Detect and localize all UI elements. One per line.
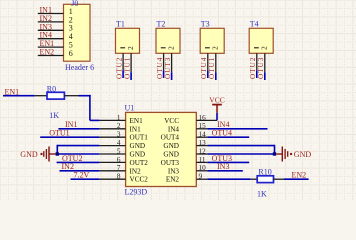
svg-text:3: 3 <box>117 131 121 139</box>
svg-text:OTU4: OTU4 <box>212 129 232 138</box>
svg-text:IN3: IN3 <box>168 167 180 175</box>
svg-text:2: 2 <box>127 46 135 50</box>
svg-text:1: 1 <box>117 114 121 122</box>
svg-text:GND: GND <box>130 142 146 150</box>
svg-text:7.2V: 7.2V <box>74 171 90 180</box>
svg-text:GND: GND <box>163 151 179 159</box>
svg-text:6: 6 <box>69 49 73 58</box>
svg-text:IN3: IN3 <box>217 162 229 171</box>
svg-text:IN1: IN1 <box>130 125 142 133</box>
svg-text:8: 8 <box>117 173 121 181</box>
svg-text:L293D: L293D <box>125 188 148 197</box>
svg-text:IN2: IN2 <box>62 162 74 171</box>
svg-text:VCC: VCC <box>164 117 179 125</box>
svg-text:VCC2: VCC2 <box>130 176 149 184</box>
svg-text:T3: T3 <box>201 20 210 29</box>
svg-text:EN2: EN2 <box>166 176 180 184</box>
svg-text:T1: T1 <box>116 20 125 29</box>
svg-text:GND: GND <box>130 151 146 159</box>
svg-text:1K: 1K <box>257 190 267 199</box>
svg-text:2: 2 <box>212 46 220 50</box>
svg-text:GND: GND <box>294 150 312 159</box>
svg-text:T2: T2 <box>157 20 166 29</box>
svg-text:OTU4: OTU4 <box>200 57 208 79</box>
svg-text:OTU2: OTU2 <box>116 57 124 79</box>
svg-text:R0: R0 <box>47 85 56 94</box>
svg-text:2: 2 <box>117 122 121 130</box>
svg-text:EN1: EN1 <box>130 117 144 125</box>
svg-text:1K: 1K <box>49 111 59 120</box>
svg-text:OTU1: OTU1 <box>208 57 216 79</box>
svg-text:2: 2 <box>167 46 175 50</box>
svg-text:2: 2 <box>261 46 269 50</box>
svg-text:GND: GND <box>20 150 38 159</box>
svg-text:OUT3: OUT3 <box>161 159 180 167</box>
svg-text:IN2: IN2 <box>130 167 142 175</box>
svg-text:OTU3: OTU3 <box>257 57 265 79</box>
svg-text:OTU1: OTU1 <box>49 129 69 138</box>
svg-text:EN2: EN2 <box>40 48 55 57</box>
svg-text:T4: T4 <box>250 20 259 29</box>
svg-text:4: 4 <box>117 139 121 147</box>
svg-text:EN2: EN2 <box>292 170 307 179</box>
svg-text:OTU1: OTU1 <box>124 57 132 79</box>
svg-text:5: 5 <box>117 147 121 155</box>
svg-text:OUT2: OUT2 <box>130 159 149 167</box>
svg-text:U1: U1 <box>125 104 135 113</box>
svg-text:IN4: IN4 <box>168 125 180 133</box>
svg-text:Header 6: Header 6 <box>65 63 94 72</box>
svg-text:OUT3: OUT3 <box>164 57 172 79</box>
svg-text:OTU2: OTU2 <box>249 57 257 79</box>
svg-text:GND: GND <box>163 142 179 150</box>
svg-text:7: 7 <box>117 164 121 172</box>
svg-text:OUT1: OUT1 <box>130 134 149 142</box>
svg-text:OTU4: OTU4 <box>156 57 164 79</box>
svg-text:OUT4: OUT4 <box>161 134 180 142</box>
svg-text:R10: R10 <box>258 168 271 177</box>
svg-text:6: 6 <box>117 156 121 164</box>
svg-text:VCC: VCC <box>209 95 224 104</box>
